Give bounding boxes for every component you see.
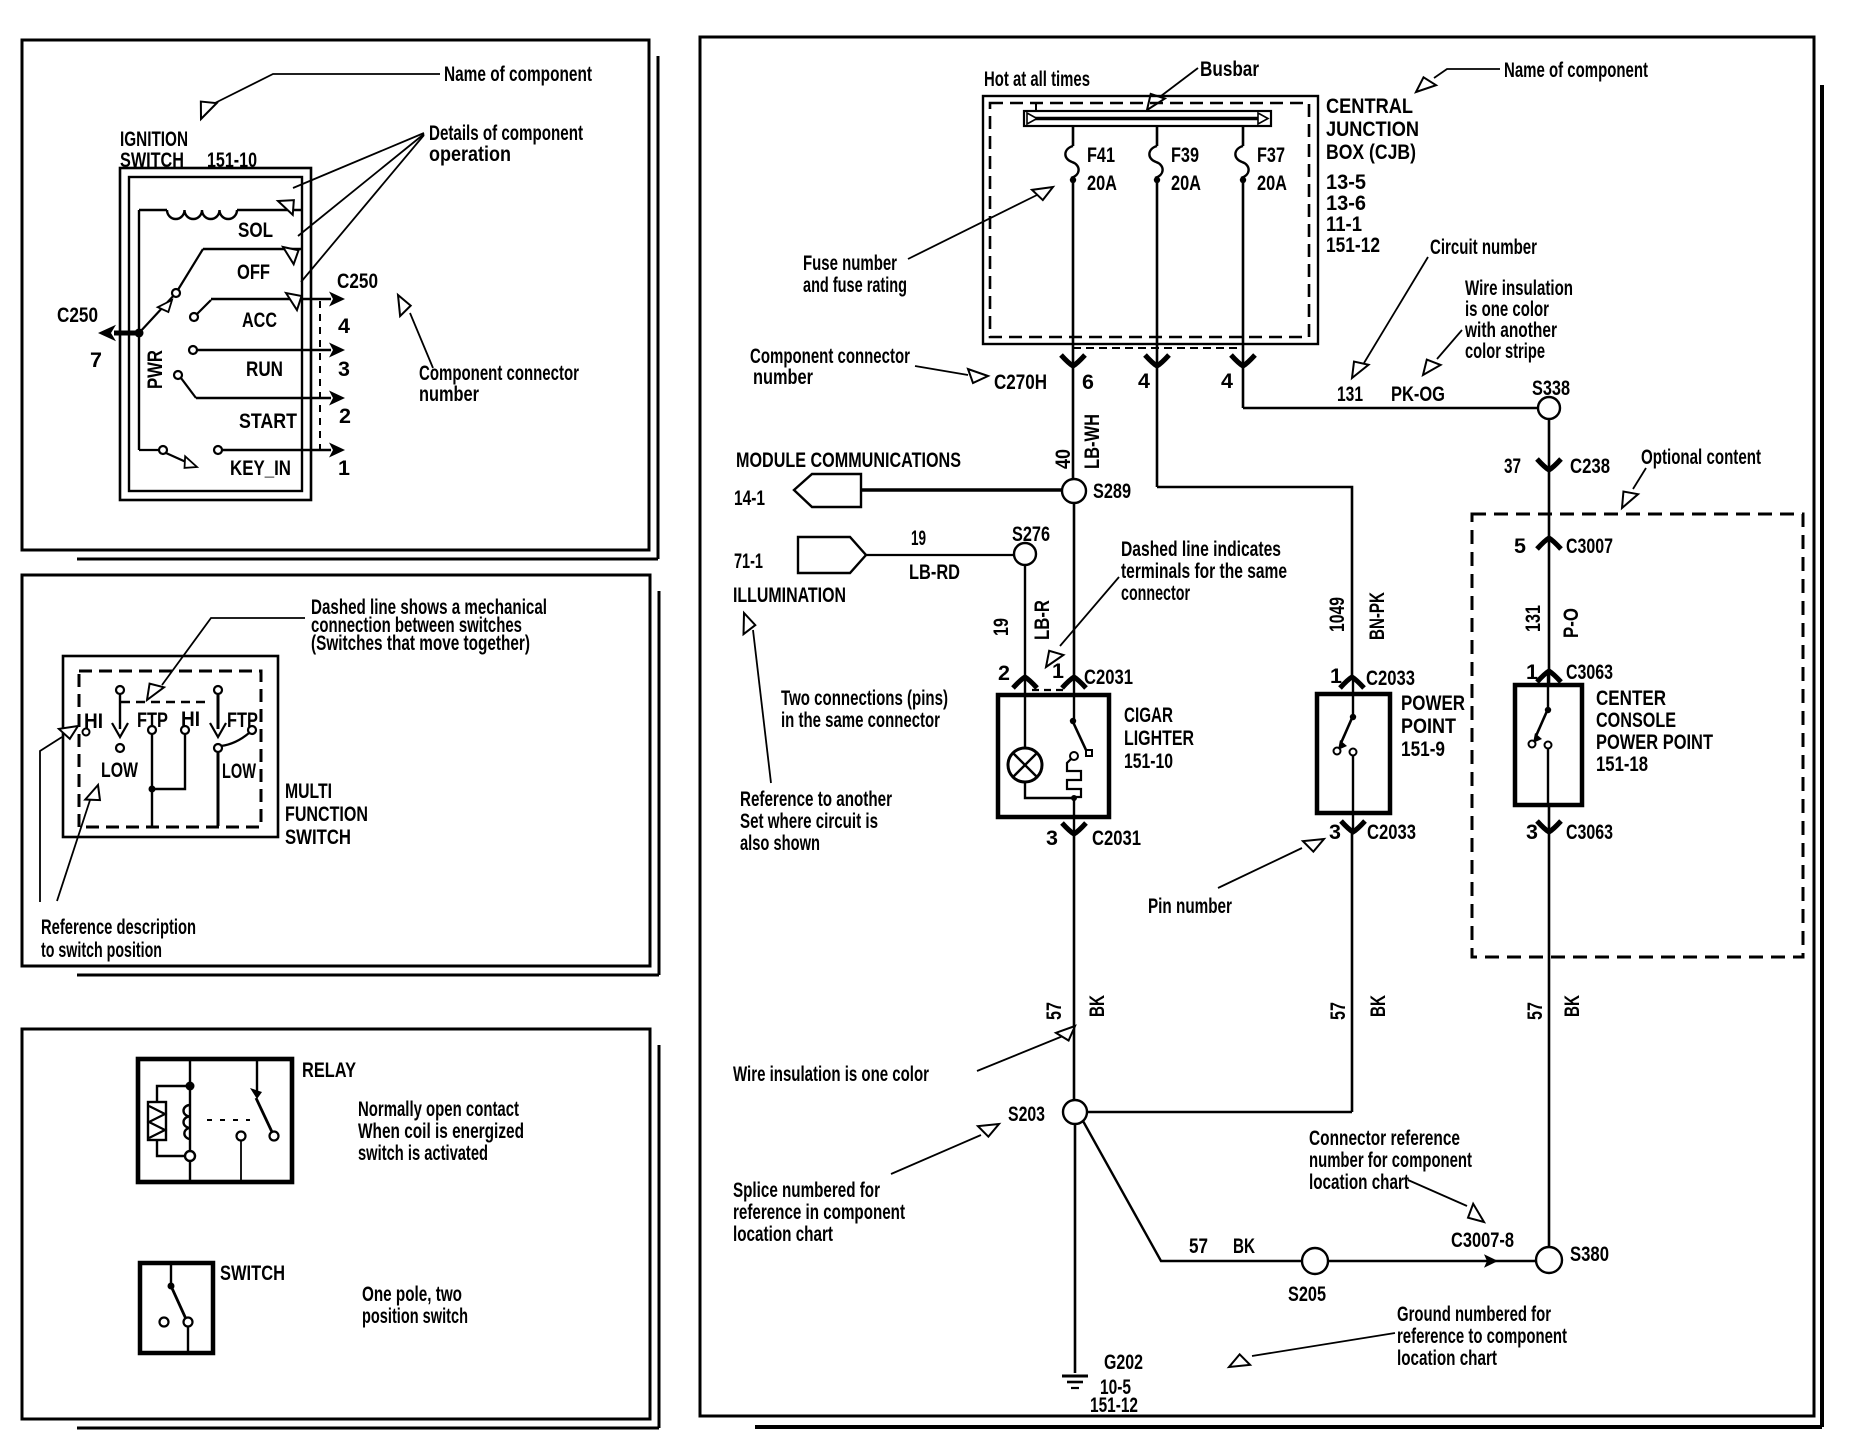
leader splice numbered xyxy=(891,1135,981,1174)
svg-text:LIGHTER: LIGHTER xyxy=(1124,726,1194,750)
illumination pointer xyxy=(798,537,866,573)
connector C3063 pin 1 xyxy=(1537,671,1561,682)
svg-text:6: 6 xyxy=(1082,370,1094,394)
svg-text:71-1: 71-1 xyxy=(734,549,763,573)
svg-text:C3007: C3007 xyxy=(1566,534,1613,558)
wire: fuse F37 output xyxy=(1242,180,1245,408)
svg-text:JUNCTION: JUNCTION xyxy=(1326,117,1419,141)
svg-text:CENTER: CENTER xyxy=(1596,686,1666,710)
switch arm to OFF xyxy=(176,249,203,293)
busbar feed stub xyxy=(1035,103,1037,111)
svg-text:Ground numbered for: Ground numbered for xyxy=(1397,1302,1551,1326)
svg-text:POWER: POWER xyxy=(1401,691,1465,715)
wire: OFF contact line xyxy=(203,248,302,250)
svg-text:19: 19 xyxy=(911,526,926,550)
svg-text:20A: 20A xyxy=(1087,171,1117,195)
svg-text:2: 2 xyxy=(339,404,351,428)
module communications pointer xyxy=(794,474,861,507)
svg-text:One pole, two: One pole, two xyxy=(362,1282,462,1306)
cigar lamp xyxy=(1008,748,1042,782)
svg-text:Dashed line indicates: Dashed line indicates xyxy=(1121,537,1281,561)
switch box xyxy=(140,1263,213,1353)
svg-text:S380: S380 xyxy=(1570,1242,1609,1266)
svg-text:C3007-8: C3007-8 xyxy=(1451,1228,1514,1252)
cigar heater element xyxy=(1070,752,1078,760)
wire link to HI contact xyxy=(152,734,185,789)
panel shadow xyxy=(658,591,661,975)
relay switch arm xyxy=(256,1098,272,1132)
svg-text:number for component: number for component xyxy=(1309,1148,1472,1172)
svg-text:131: 131 xyxy=(1337,382,1363,406)
svg-text:20A: 20A xyxy=(1171,171,1201,195)
svg-text:F37: F37 xyxy=(1257,143,1285,167)
ignition switch outer box xyxy=(120,168,311,500)
connector C2033 pin 3 xyxy=(1341,821,1365,832)
pp switch pivot xyxy=(1350,714,1356,720)
svg-text:3: 3 xyxy=(1046,826,1058,850)
wire: left common bus PWR xyxy=(138,210,140,450)
splice S276 xyxy=(1014,543,1036,565)
svg-text:C238: C238 xyxy=(1570,454,1610,478)
splice S338 xyxy=(1538,397,1560,419)
svg-text:57: 57 xyxy=(1523,1002,1547,1020)
wire: RUN pin 3 xyxy=(197,349,331,351)
cc switch pivot xyxy=(1545,707,1551,713)
svg-text:Wire insulation is one color: Wire insulation is one color xyxy=(733,1062,929,1086)
svg-text:151-9: 151-9 xyxy=(1401,737,1445,761)
dashed gang line C2031 xyxy=(1032,689,1068,691)
cc stationary contact xyxy=(1545,742,1552,749)
center console power point box xyxy=(1515,685,1582,805)
svg-text:4: 4 xyxy=(1221,369,1233,393)
wire: S205 to S380 xyxy=(1328,1260,1536,1262)
svg-text:KEY_IN: KEY_IN xyxy=(230,456,291,480)
svg-text:ACC: ACC xyxy=(242,308,277,332)
leader illumination reference xyxy=(753,630,771,783)
mechanical link dashed line xyxy=(121,701,211,704)
svg-text:57: 57 xyxy=(1326,1002,1350,1020)
svg-text:151-12: 151-12 xyxy=(1326,233,1380,257)
relay stationary contact xyxy=(237,1132,246,1141)
wire: S289 down to pin 1 xyxy=(1073,503,1076,677)
splice S205 xyxy=(1302,1248,1328,1274)
svg-text:Fuse number: Fuse number xyxy=(803,251,897,275)
resistor wires xyxy=(157,1086,187,1102)
svg-text:C2031: C2031 xyxy=(1084,665,1133,689)
svg-text:location chart: location chart xyxy=(733,1222,833,1246)
svg-text:LB-RD: LB-RD xyxy=(909,560,960,584)
ground G202 xyxy=(1062,1375,1088,1378)
svg-text:1: 1 xyxy=(1526,660,1538,684)
fuse F41 20A xyxy=(1072,126,1075,146)
svg-text:BK: BK xyxy=(1366,995,1390,1017)
panel border xyxy=(22,40,649,550)
wire: cigar lighter to S203 xyxy=(1073,834,1076,1100)
central junction box CJB outline xyxy=(983,96,1318,344)
cigar switch xyxy=(1073,677,1075,719)
svg-text:Reference description: Reference description xyxy=(41,915,196,939)
svg-text:131: 131 xyxy=(1521,605,1545,632)
svg-text:connector: connector xyxy=(1121,581,1190,605)
svg-text:Normally open contact: Normally open contact xyxy=(358,1097,519,1121)
svg-text:14-1: 14-1 xyxy=(734,486,765,510)
node: coil top junction xyxy=(186,1082,195,1091)
svg-text:Connector reference: Connector reference xyxy=(1309,1126,1460,1150)
svg-text:Splice numbered for: Splice numbered for xyxy=(733,1178,880,1202)
svg-text:BK: BK xyxy=(1233,1234,1255,1258)
node: pivot junction xyxy=(135,329,144,338)
leader dashed-line-indicates xyxy=(1060,577,1119,646)
switch 1 (HI/LOW) xyxy=(116,686,124,694)
leader connector reference xyxy=(1408,1180,1467,1206)
svg-text:C250: C250 xyxy=(57,303,98,327)
KEY_IN switch xyxy=(139,449,159,451)
panel border xyxy=(22,1029,650,1419)
leader circuit number xyxy=(1364,257,1428,363)
panel border xyxy=(22,575,650,966)
svg-text:P-O: P-O xyxy=(1559,608,1583,638)
svg-text:When coil is energized: When coil is energized xyxy=(358,1119,524,1143)
relay internal bus xyxy=(189,1061,191,1180)
leader ground numbered xyxy=(1252,1333,1395,1356)
svg-text:START: START xyxy=(239,409,297,433)
coil SOL winding xyxy=(139,209,167,211)
leader to fuse xyxy=(908,195,1037,259)
svg-text:OFF: OFF xyxy=(237,260,270,284)
svg-text:in the same connector: in the same connector xyxy=(781,708,940,732)
connector C2031 pins 2 and 1 xyxy=(1013,677,1037,688)
leader fan to details xyxy=(293,133,424,188)
contact KEY_IN xyxy=(214,446,222,454)
svg-text:BN-PK: BN-PK xyxy=(1365,592,1389,640)
svg-text:7: 7 xyxy=(90,348,102,372)
relay resistor xyxy=(148,1102,166,1140)
mechanical dash link xyxy=(207,1119,250,1121)
svg-text:C3063: C3063 xyxy=(1566,660,1613,684)
svg-text:location chart: location chart xyxy=(1397,1346,1497,1370)
wire: ACC pin 4 xyxy=(197,300,211,314)
panel shadow xyxy=(657,56,660,559)
splice S289 xyxy=(1062,479,1086,503)
svg-text:MULTI: MULTI xyxy=(285,779,332,803)
svg-text:(Switches that move together): (Switches that move together) xyxy=(311,631,530,655)
svg-text:location chart: location chart xyxy=(1309,1170,1409,1194)
pp stationary contact xyxy=(1350,749,1357,756)
pp switch arm xyxy=(1341,718,1352,743)
contact ACC xyxy=(190,313,198,321)
wire: START pin 2 xyxy=(181,378,196,398)
cc switch arm xyxy=(1536,711,1547,736)
svg-text:Pin number: Pin number xyxy=(1148,894,1232,918)
svg-text:S203: S203 xyxy=(1008,1102,1045,1126)
svg-text:C3063: C3063 xyxy=(1566,820,1613,844)
relay coil xyxy=(183,1105,190,1139)
leader to CJB name xyxy=(1434,69,1500,78)
svg-text:Reference to another: Reference to another xyxy=(740,787,892,811)
svg-text:5: 5 xyxy=(1514,534,1526,558)
svg-text:19: 19 xyxy=(989,618,1013,636)
svg-text:57: 57 xyxy=(1189,1234,1208,1258)
svg-text:Circuit number: Circuit number xyxy=(1430,235,1537,259)
svg-text:BOX (CJB): BOX (CJB) xyxy=(1326,140,1416,164)
contact HI 1 xyxy=(83,729,90,736)
svg-text:RUN: RUN xyxy=(246,357,283,381)
svg-text:SWITCH: SWITCH xyxy=(285,825,351,849)
pin arrows C270H xyxy=(1061,355,1085,366)
leader wire insulation xyxy=(1437,330,1462,359)
ignition switch inner box xyxy=(129,177,302,491)
relay switch pivot wire xyxy=(256,1061,258,1097)
wire: fuse F41 output xyxy=(1072,180,1075,479)
svg-text:S289: S289 xyxy=(1093,479,1131,503)
dashed connector line C250 xyxy=(319,301,321,449)
wire: S338 down to center console xyxy=(1548,419,1551,687)
wire: 131 PK-OG to S338 xyxy=(1243,407,1537,410)
svg-text:reference in component: reference in component xyxy=(733,1200,905,1224)
cigar bottom tie xyxy=(1025,782,1074,834)
svg-text:40: 40 xyxy=(1051,449,1075,469)
svg-text:3: 3 xyxy=(1329,820,1341,844)
leader to component name xyxy=(213,74,440,104)
svg-text:FUNCTION: FUNCTION xyxy=(285,802,368,826)
wire: C250 pin 7 to common xyxy=(114,331,139,336)
svg-text:Name of component: Name of component xyxy=(1504,58,1648,82)
svg-text:SWITCH: SWITCH xyxy=(220,1261,285,1285)
wire: S203 to S205 diagonal xyxy=(1083,1121,1302,1261)
svg-text:20A: 20A xyxy=(1257,171,1287,195)
svg-text:HI: HI xyxy=(181,707,200,731)
panel border xyxy=(700,37,1814,1416)
leader to connector number xyxy=(410,313,433,368)
panel shadow xyxy=(658,1045,661,1428)
leader wire insulation one color xyxy=(977,1036,1063,1071)
module communications lead xyxy=(862,488,1062,491)
svg-text:CIGAR: CIGAR xyxy=(1124,703,1173,727)
svg-text:MODULE COMMUNICATIONS: MODULE COMMUNICATIONS xyxy=(736,448,961,472)
rotation arrow on arm xyxy=(158,296,176,314)
svg-text:reference to component: reference to component xyxy=(1397,1324,1567,1348)
wire: 19 LB-RD to S276 xyxy=(866,554,1014,556)
svg-text:3: 3 xyxy=(338,357,350,381)
svg-text:Set where circuit is: Set where circuit is xyxy=(740,809,878,833)
svg-text:FTP: FTP xyxy=(137,708,168,732)
svg-text:C270H: C270H xyxy=(994,370,1047,394)
svg-text:151-10: 151-10 xyxy=(1124,749,1173,773)
svg-text:F41: F41 xyxy=(1087,143,1115,167)
svg-text:BK: BK xyxy=(1560,995,1584,1017)
svg-text:SOL: SOL xyxy=(238,218,273,242)
svg-text:Busbar: Busbar xyxy=(1200,57,1260,81)
leader to mechanical dashed line xyxy=(162,618,305,685)
contact HI 2 xyxy=(181,726,189,734)
svg-text:151-12: 151-12 xyxy=(1090,1393,1138,1417)
splice S203 xyxy=(1063,1100,1087,1124)
svg-text:operation: operation xyxy=(429,142,511,166)
svg-text:37: 37 xyxy=(1504,454,1521,478)
wire: KEY_IN pin 1 xyxy=(222,449,331,451)
connector C3007 xyxy=(1537,538,1561,549)
switch pivot wire xyxy=(170,1265,172,1284)
switch contact xyxy=(160,1318,169,1327)
svg-text:LOW: LOW xyxy=(222,759,256,783)
multifunction switch solid box xyxy=(63,656,278,837)
connector C3063 pin 3 xyxy=(1537,821,1561,832)
leader to LOW xyxy=(57,794,92,901)
svg-text:S276: S276 xyxy=(1012,522,1050,546)
svg-text:RELAY: RELAY xyxy=(302,1058,356,1082)
connector C2031 pin 3 xyxy=(1062,823,1086,834)
fuse F39 20A xyxy=(1156,126,1159,146)
wire: fuse F39 output xyxy=(1156,180,1159,487)
leader pin number xyxy=(1218,848,1302,888)
svg-text:and fuse rating: and fuse rating xyxy=(803,273,907,297)
splice S380 xyxy=(1536,1247,1562,1273)
svg-text:POINT: POINT xyxy=(1401,714,1456,738)
svg-text:151-18: 151-18 xyxy=(1596,752,1648,776)
svg-text:LOW: LOW xyxy=(101,758,139,782)
svg-text:3: 3 xyxy=(1526,820,1538,844)
svg-text:1: 1 xyxy=(1052,659,1064,683)
svg-text:Two connections (pins): Two connections (pins) xyxy=(781,686,948,710)
terminal: coil bottom xyxy=(185,1151,195,1161)
wire: S203 to power point wire xyxy=(1087,1111,1352,1113)
contact START xyxy=(174,371,182,379)
connector C270H dashed gang line xyxy=(1073,347,1243,349)
svg-text:1: 1 xyxy=(338,456,350,480)
switch arm xyxy=(171,1286,186,1319)
svg-text:C2033: C2033 xyxy=(1366,666,1415,690)
wire: F39 branch to power point xyxy=(1157,487,1352,677)
leader optional content xyxy=(1633,468,1646,489)
svg-text:BK: BK xyxy=(1085,995,1109,1017)
leader to HI xyxy=(40,737,62,902)
svg-text:FTP: FTP xyxy=(227,708,258,732)
switch 2 (FTP) xyxy=(148,726,156,734)
svg-text:ILLUMINATION: ILLUMINATION xyxy=(733,583,846,607)
svg-text:C250: C250 xyxy=(337,269,378,293)
connector C2033 pin 1 xyxy=(1340,677,1364,688)
connector C238 xyxy=(1537,459,1561,470)
cigar lighter box xyxy=(998,695,1109,817)
svg-text:F39: F39 xyxy=(1171,143,1199,167)
svg-text:1049: 1049 xyxy=(1325,597,1349,632)
svg-text:S205: S205 xyxy=(1288,1282,1326,1306)
fuse F37 20A xyxy=(1242,126,1245,146)
svg-text:CONSOLE: CONSOLE xyxy=(1596,708,1676,732)
label C270H xyxy=(968,369,988,383)
svg-text:57: 57 xyxy=(1042,1002,1066,1020)
svg-text:2: 2 xyxy=(998,661,1010,685)
svg-text:position switch: position switch xyxy=(362,1304,468,1328)
svg-text:LB-WH: LB-WH xyxy=(1080,414,1104,469)
wire: center console to S380 xyxy=(1548,805,1551,1247)
svg-text:to switch position: to switch position xyxy=(41,938,162,962)
svg-text:PWR: PWR xyxy=(143,350,167,389)
svg-text:PK-OG: PK-OG xyxy=(1391,382,1445,406)
multifunction switch dashed box xyxy=(79,671,261,827)
svg-text:CENTRAL: CENTRAL xyxy=(1326,94,1413,118)
svg-text:switch is activated: switch is activated xyxy=(358,1141,488,1165)
relay box xyxy=(138,1059,292,1182)
svg-text:C2031: C2031 xyxy=(1092,826,1141,850)
panel shadow xyxy=(1820,85,1824,1427)
svg-text:Hot at all times: Hot at all times xyxy=(984,67,1090,91)
busbar xyxy=(1024,111,1271,126)
svg-text:POWER POINT: POWER POINT xyxy=(1596,730,1713,754)
svg-text:4: 4 xyxy=(1138,369,1150,393)
svg-text:1: 1 xyxy=(1330,664,1342,688)
svg-text:4: 4 xyxy=(338,314,350,338)
contact RUN xyxy=(189,346,197,354)
leader to busbar xyxy=(1161,68,1198,96)
wire: power point to S203 line xyxy=(1351,832,1354,1112)
wire: S203 to ground xyxy=(1074,1124,1077,1373)
svg-text:C2033: C2033 xyxy=(1367,820,1416,844)
svg-text:S338: S338 xyxy=(1532,376,1570,400)
arm curve to FTP contact xyxy=(221,733,249,746)
wire: S276 down to pin 2 xyxy=(1024,565,1026,677)
svg-text:Name of component: Name of component xyxy=(444,62,592,86)
contact: arm end xyxy=(172,289,180,297)
svg-text:also shown: also shown xyxy=(740,831,820,855)
svg-text:terminals for the same: terminals for the same xyxy=(1121,559,1287,583)
svg-text:G202: G202 xyxy=(1104,1350,1143,1374)
svg-text:LB-R: LB-R xyxy=(1030,600,1054,640)
svg-text:Optional content: Optional content xyxy=(1641,445,1761,469)
svg-text:color stripe: color stripe xyxy=(1465,339,1545,363)
svg-text:number: number xyxy=(419,382,479,406)
switch 4 (FTP/LOW) xyxy=(214,686,222,694)
svg-text:number: number xyxy=(753,365,813,389)
power point box xyxy=(1317,694,1390,813)
optional content dashed box xyxy=(1472,514,1803,957)
